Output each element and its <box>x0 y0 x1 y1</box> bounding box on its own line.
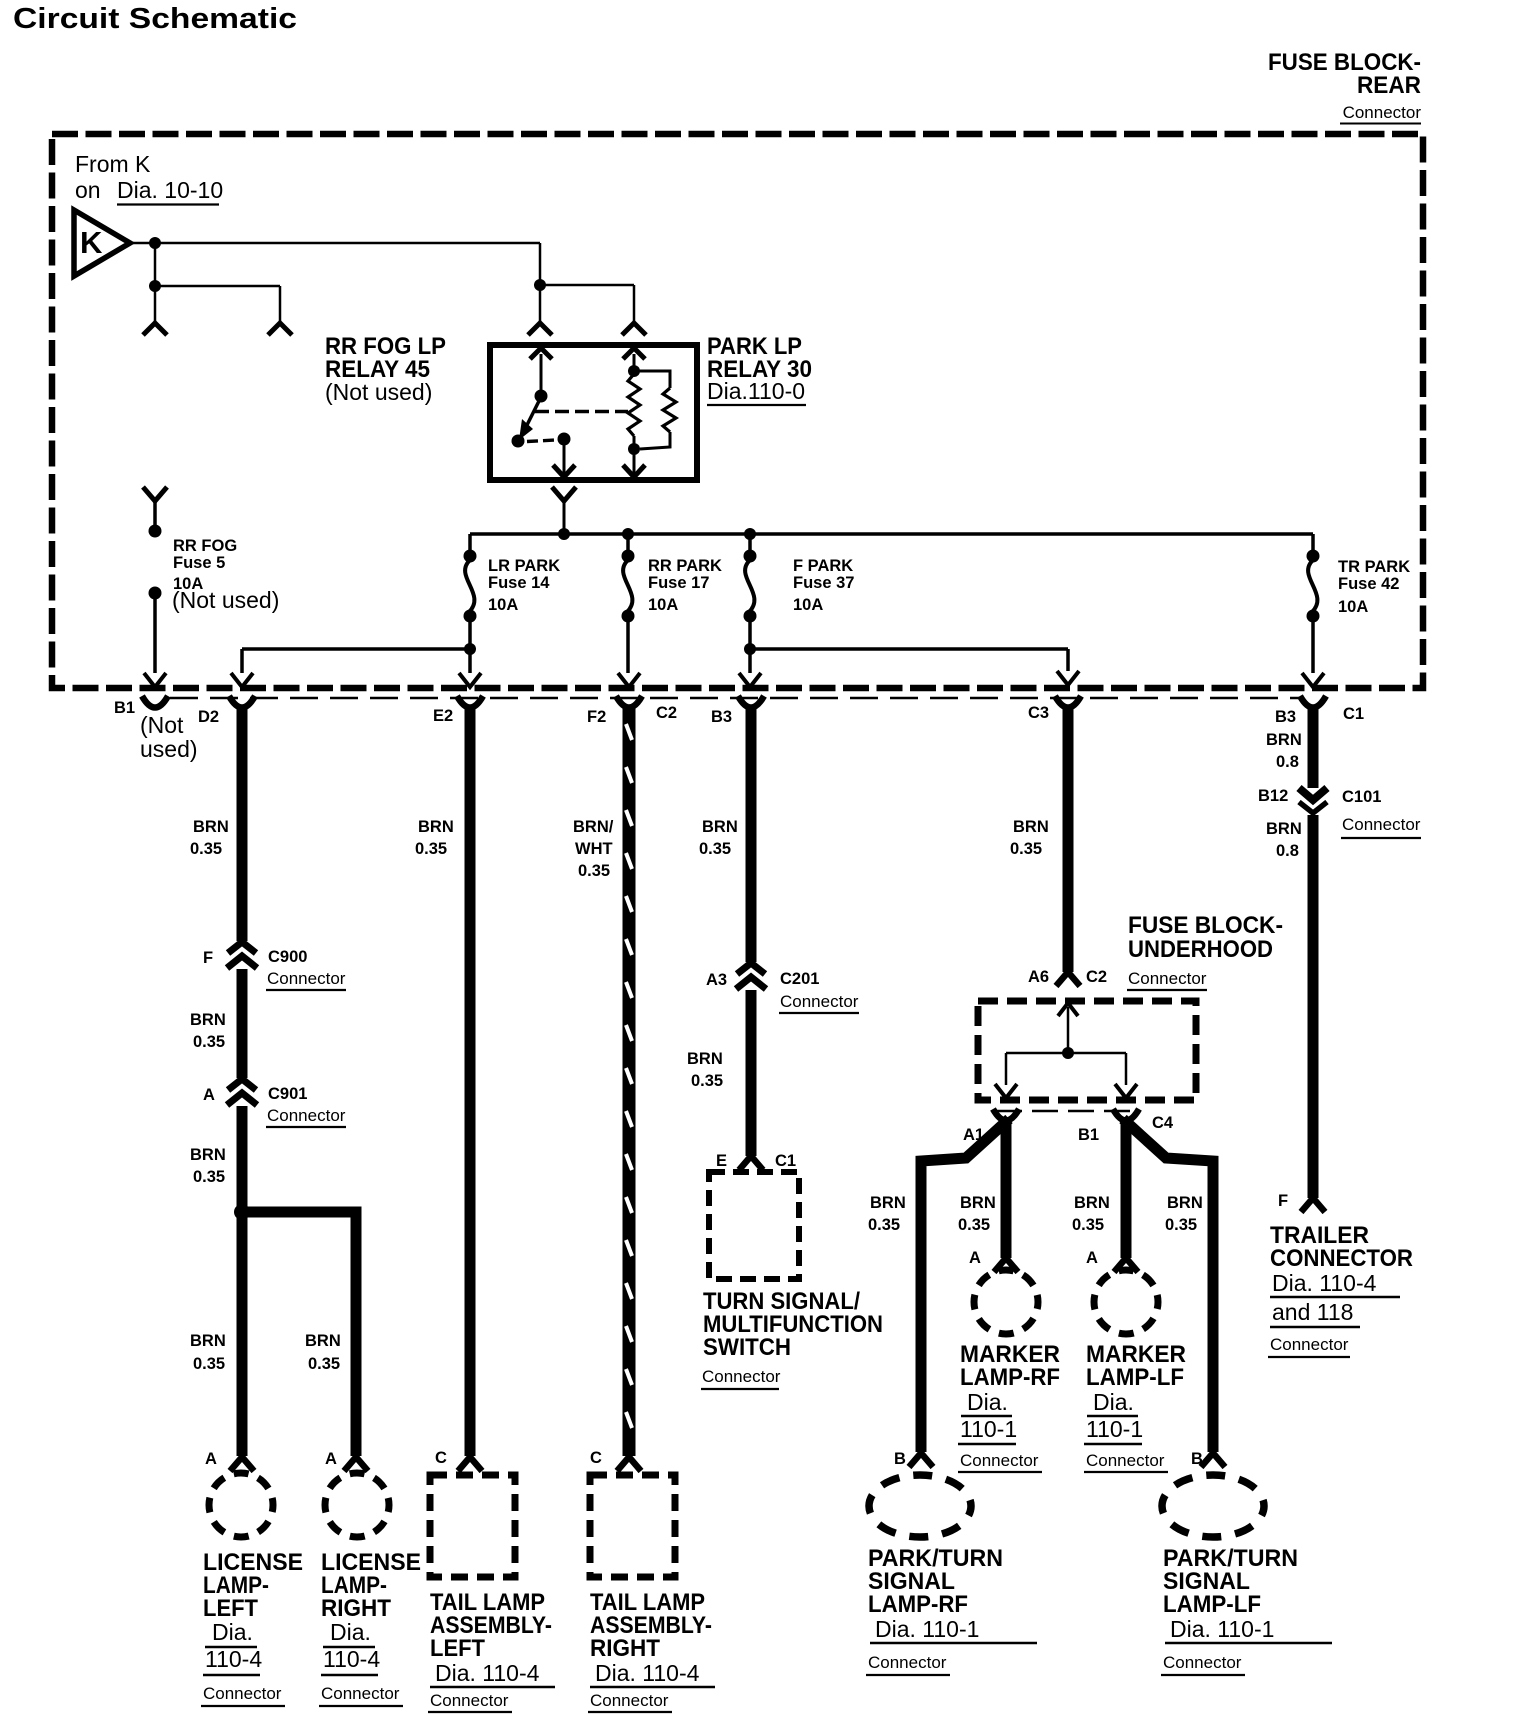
svg-text:0.35: 0.35 <box>868 1216 900 1234</box>
relay coil wire to junction <box>633 436 636 449</box>
svg-text:BRN: BRN <box>418 818 454 836</box>
svg-text:0.35: 0.35 <box>1072 1216 1104 1234</box>
turn signal multifunction switch box <box>709 1172 799 1279</box>
svg-text:BRN: BRN <box>870 1194 906 1212</box>
svg-text:0.35: 0.35 <box>308 1355 340 1373</box>
connector C101 <box>1299 788 1327 813</box>
svg-text:Dia. 110-4: Dia. 110-4 <box>1272 1270 1377 1296</box>
svg-text:A6: A6 <box>1028 968 1049 986</box>
svg-text:Dia.: Dia. <box>1093 1389 1134 1415</box>
wire down to relay pins <box>539 243 542 285</box>
relay switch pivot junction <box>535 390 548 403</box>
connector C900 <box>227 942 257 968</box>
wire B3 brn label <box>699 818 738 858</box>
rr fog fuse 5 label <box>172 537 279 613</box>
connector C201 labels <box>706 970 859 1013</box>
underhood internal feed arrow <box>1058 1003 1078 1053</box>
svg-text:A: A <box>1086 1249 1098 1267</box>
svg-text:A3: A3 <box>706 971 727 989</box>
wire B1 to marker LF <box>1121 1119 1132 1258</box>
svg-text:RIGHT: RIGHT <box>321 1595 391 1622</box>
svg-text:C901: C901 <box>268 1085 307 1103</box>
fuse 37 F PARK <box>744 550 757 623</box>
svg-text:E2: E2 <box>433 707 453 725</box>
svg-text:F: F <box>203 949 213 967</box>
trailer connector terminal <box>1301 1198 1325 1212</box>
svg-text:0.35: 0.35 <box>691 1072 723 1090</box>
svg-text:(Not used): (Not used) <box>325 379 432 405</box>
svg-text:0.35: 0.35 <box>958 1216 990 1234</box>
svg-text:0.35: 0.35 <box>193 1355 225 1373</box>
wire brn label <box>190 1146 226 1186</box>
marker RF terminal <box>994 1258 1018 1272</box>
license lamp right label <box>319 1549 421 1706</box>
svg-text:0.35: 0.35 <box>415 840 447 858</box>
svg-text:SWITCH: SWITCH <box>703 1334 791 1361</box>
pin B3 cup <box>738 696 764 708</box>
connector C901 labels <box>203 1085 346 1127</box>
svg-text:BRN: BRN <box>1074 1194 1110 1212</box>
svg-text:Connector: Connector <box>321 1684 400 1703</box>
svg-text:Dia. 110-1: Dia. 110-1 <box>1170 1616 1274 1642</box>
wire E2 brn label <box>415 818 454 858</box>
wire fuse5 to B1 <box>144 593 166 687</box>
park lp relay 30 label <box>707 333 812 405</box>
svg-text:110-1: 110-1 <box>1086 1416 1143 1442</box>
wire brn label <box>190 1011 226 1051</box>
svg-text:C: C <box>590 1449 602 1467</box>
relay coil bottom junction <box>628 443 640 455</box>
svg-text:Connector: Connector <box>1343 103 1422 122</box>
wire fuse 14 to D2 and E2 <box>231 616 481 687</box>
wire C1 trailer upper <box>1308 707 1319 788</box>
svg-text:Connector: Connector <box>267 969 346 988</box>
wire F2 tail lamp right (BRN/WHT striped) <box>626 707 632 1456</box>
svg-text:A: A <box>203 1086 215 1104</box>
wire B3 turn signal lower <box>746 990 757 1156</box>
relay output junction <box>558 433 571 446</box>
svg-text:RIGHT: RIGHT <box>590 1635 660 1662</box>
svg-text:BRN: BRN <box>190 1332 226 1350</box>
wire down from junction <box>154 243 157 286</box>
svg-text:Connector: Connector <box>702 1367 781 1386</box>
wire A1 to marker RF <box>1001 1119 1012 1258</box>
svg-text:C1: C1 <box>775 1152 796 1170</box>
svg-text:E: E <box>716 1152 727 1170</box>
svg-text:F PARK: F PARK <box>793 557 853 575</box>
underhood internal split wire <box>1006 1052 1126 1055</box>
svg-text:C101: C101 <box>1342 788 1381 806</box>
svg-text:Circuit Schematic: Circuit Schematic <box>13 3 297 35</box>
svg-text:110-1: 110-1 <box>960 1416 1017 1442</box>
svg-text:C3: C3 <box>1028 704 1049 722</box>
park/turn signal lamp LF bulb <box>1162 1475 1264 1537</box>
bus junction at relay output <box>558 528 570 540</box>
svg-text:D2: D2 <box>198 708 219 726</box>
bus drop to fuse 37 <box>748 534 752 556</box>
wire from K to relay branch <box>130 242 540 245</box>
pin B1 cup (not used) <box>142 696 168 708</box>
fuse supply bus <box>470 532 1313 536</box>
bus junction fuse 37 <box>744 528 756 540</box>
fuse 14 LR PARK <box>464 550 477 623</box>
svg-text:Dia. 110-4: Dia. 110-4 <box>595 1660 700 1686</box>
turn signal switch label <box>701 1288 883 1389</box>
svg-text:10A: 10A <box>1338 598 1368 616</box>
svg-text:From K: From K <box>75 151 151 177</box>
wire D2 brn label <box>190 818 229 858</box>
svg-text:LAMP-RF: LAMP-RF <box>868 1591 968 1618</box>
node K triangle <box>74 210 130 276</box>
connector C901 <box>227 1079 257 1105</box>
wire brn 0.8 label lower <box>1266 820 1302 860</box>
svg-text:0.35: 0.35 <box>699 840 731 858</box>
svg-text:0.35: 0.35 <box>1010 840 1042 858</box>
fuse block rear name label <box>1268 49 1421 124</box>
B1 not used label <box>140 712 198 762</box>
svg-text:BRN: BRN <box>1013 818 1049 836</box>
svg-text:Connector: Connector <box>780 992 859 1011</box>
svg-text:C1: C1 <box>1343 705 1364 723</box>
svg-text:110-4: 110-4 <box>323 1646 380 1672</box>
svg-text:CONNECTOR: CONNECTOR <box>1270 1245 1413 1272</box>
svg-text:Connector: Connector <box>590 1691 669 1710</box>
park/turn signal lamp RF label <box>866 1545 1037 1675</box>
svg-text:C900: C900 <box>268 948 307 966</box>
svg-text:BRN: BRN <box>190 1146 226 1164</box>
svg-text:A: A <box>205 1450 217 1468</box>
svg-text:and 118: and 118 <box>1272 1299 1353 1325</box>
svg-text:TR PARK: TR PARK <box>1338 558 1410 576</box>
wire C3 to underhood fuse block <box>1063 707 1074 972</box>
tail lamp right terminal <box>617 1457 641 1471</box>
fuse 17 RR PARK <box>622 550 635 623</box>
fuse 42 TR PARK <box>1307 550 1320 623</box>
svg-text:on: on <box>75 177 101 203</box>
svg-text:(Not: (Not <box>140 712 184 738</box>
svg-text:BRN: BRN <box>702 818 738 836</box>
svg-text:10A: 10A <box>648 596 678 614</box>
underhood internal right out arrow <box>1115 1053 1137 1098</box>
relay output terminal funnel <box>552 487 576 534</box>
svg-text:BRN: BRN <box>1266 731 1302 749</box>
svg-text:Dia.: Dia. <box>967 1389 1008 1415</box>
svg-text:Connector: Connector <box>1086 1451 1165 1470</box>
svg-text:UNDERHOOD: UNDERHOOD <box>1128 936 1273 963</box>
wire stub terminal left <box>143 286 167 335</box>
svg-text:B: B <box>894 1450 906 1468</box>
park/turn signal lamp RF bulb <box>869 1475 971 1537</box>
tail lamp left terminal <box>458 1457 482 1471</box>
junction above relay <box>534 279 546 291</box>
pin C3 cup <box>1055 696 1081 708</box>
wire C4 to park/turn LF <box>1123 1119 1213 1452</box>
fuse 17 label <box>648 557 722 614</box>
svg-text:Connector: Connector <box>1270 1335 1349 1354</box>
brn labels marker/park wires <box>868 1194 1203 1234</box>
wire brn label <box>687 1050 723 1090</box>
bus drop to fuse 17 <box>626 534 630 556</box>
svg-text:WHT: WHT <box>575 840 613 858</box>
license left terminal <box>230 1457 254 1471</box>
svg-text:Dia.110-0: Dia.110-0 <box>707 378 805 404</box>
license lamp right bulb <box>325 1473 389 1537</box>
wire F2 brn/wht label <box>573 818 614 880</box>
relay internal pin chevron right <box>623 348 645 359</box>
tail lamp assembly right box <box>590 1475 675 1577</box>
wire across relay pins <box>540 284 634 287</box>
svg-text:A: A <box>325 1450 337 1468</box>
underhood internal junction <box>1062 1047 1074 1059</box>
svg-text:Fuse 5: Fuse 5 <box>173 554 225 572</box>
svg-text:BRN: BRN <box>687 1050 723 1068</box>
pin D2 cup <box>229 696 255 708</box>
svg-text:Dia.: Dia. <box>212 1619 253 1645</box>
rr fog fuse 5 (not used, open) <box>149 525 162 600</box>
fuse 37 label <box>793 557 854 614</box>
svg-text:LAMP-LF: LAMP-LF <box>1163 1591 1261 1618</box>
svg-text:Dia. 10-10: Dia. 10-10 <box>117 177 223 203</box>
svg-text:Connector: Connector <box>267 1106 346 1125</box>
svg-text:0.35: 0.35 <box>190 840 222 858</box>
svg-text:B1: B1 <box>1078 1126 1099 1144</box>
wire C3 brn label <box>1010 818 1049 858</box>
wire fuse 17 to F2 <box>618 616 640 687</box>
svg-text:0.8: 0.8 <box>1276 753 1299 771</box>
wire branch to license right <box>242 1212 356 1456</box>
fuse block underhood box <box>978 1001 1196 1100</box>
pin C1 cup <box>1300 696 1326 708</box>
svg-text:110-4: 110-4 <box>205 1646 262 1672</box>
svg-text:F: F <box>1278 1192 1288 1210</box>
svg-text:Fuse 37: Fuse 37 <box>793 574 854 592</box>
park/turn signal lamp LF label <box>1161 1545 1332 1675</box>
marker lamp RF bulb <box>974 1270 1038 1334</box>
svg-text:0.35: 0.35 <box>193 1168 225 1186</box>
svg-text:LR PARK: LR PARK <box>488 557 560 575</box>
svg-text:LAMP-LF: LAMP-LF <box>1086 1364 1184 1391</box>
park/turn RF terminal <box>909 1453 933 1467</box>
svg-text:B3: B3 <box>711 708 732 726</box>
junction license branch <box>234 1204 250 1220</box>
svg-text:BRN/: BRN/ <box>573 818 614 836</box>
wire B3 turn signal upper <box>746 707 757 962</box>
wire fuse 42 to C1 <box>1302 616 1324 687</box>
svg-text:FUSE BLOCK-: FUSE BLOCK- <box>1128 912 1283 939</box>
underhood input terminal <box>1056 972 1080 986</box>
relay output wire arrow <box>553 439 575 477</box>
svg-text:Connector: Connector <box>1163 1653 1242 1672</box>
bus drop to fuse 14 <box>468 534 472 556</box>
turn signal switch terminal <box>739 1156 763 1170</box>
rr fog lp relay 45 label <box>325 333 446 405</box>
from K label <box>75 151 223 205</box>
relay coil output arrow <box>623 449 645 477</box>
wire D2 lower <box>237 1106 248 1456</box>
wire C1 trailer lower <box>1308 815 1319 1198</box>
tail lamp assembly left label <box>428 1589 555 1712</box>
svg-text:Connector: Connector <box>203 1684 282 1703</box>
wire stub terminal right <box>268 286 292 335</box>
wire D2 license lamps (upper) <box>237 707 248 941</box>
svg-text:B1: B1 <box>114 699 135 717</box>
svg-text:B12: B12 <box>1258 787 1288 805</box>
svg-text:Connector: Connector <box>960 1451 1039 1470</box>
svg-text:10A: 10A <box>793 596 823 614</box>
marker lamp LF label <box>1084 1341 1186 1472</box>
svg-text:C2: C2 <box>1086 968 1107 986</box>
svg-text:10A: 10A <box>488 596 518 614</box>
svg-text:BRN: BRN <box>1266 820 1302 838</box>
bus junction fuse 17 <box>622 528 634 540</box>
pin F2 cup <box>616 696 642 708</box>
svg-text:A: A <box>969 1249 981 1267</box>
relay suppression resistor <box>634 371 676 449</box>
trailer connector label <box>1268 1222 1413 1357</box>
wire brn 0.8 label <box>1266 731 1302 771</box>
relay coil <box>628 374 640 436</box>
svg-text:Fuse 14: Fuse 14 <box>488 574 550 592</box>
svg-text:K: K <box>80 225 103 260</box>
underhood internal left out arrow <box>995 1053 1017 1098</box>
relay blade contact junction <box>512 435 525 448</box>
svg-text:(Not used): (Not used) <box>172 587 279 613</box>
pin C4 cup <box>1113 1109 1139 1121</box>
svg-text:0.8: 0.8 <box>1276 842 1299 860</box>
relay coil feed wire <box>633 354 636 368</box>
wire branch right <box>155 285 280 288</box>
svg-text:0.35: 0.35 <box>1165 1216 1197 1234</box>
underhood interface dashed line <box>996 1110 1136 1113</box>
svg-text:BRN: BRN <box>1167 1194 1203 1212</box>
park/turn LF terminal <box>1201 1453 1225 1467</box>
rr fog fuse 5 feed terminal <box>143 487 167 531</box>
relay switch blade <box>519 401 539 440</box>
connector C201 <box>736 963 766 989</box>
relay pin wire left terminal <box>528 285 552 335</box>
relay switch common wire <box>540 354 543 392</box>
svg-text:C201: C201 <box>780 970 819 988</box>
connector interface dashed line <box>170 697 1302 700</box>
junction <box>149 280 161 292</box>
tail lamp assembly right label <box>588 1589 715 1712</box>
svg-text:Connector: Connector <box>1128 969 1207 988</box>
wire A1 to park/turn RF <box>921 1119 1009 1452</box>
marker lamp RF label <box>958 1341 1060 1472</box>
svg-text:RR FOG: RR FOG <box>173 537 237 555</box>
fuse 14 label <box>488 557 560 614</box>
license lamp left label <box>201 1549 303 1706</box>
relay pin wire right terminal <box>622 285 646 335</box>
svg-text:BRN: BRN <box>190 1011 226 1029</box>
svg-text:C: C <box>435 1449 447 1467</box>
svg-text:0.35: 0.35 <box>193 1033 225 1051</box>
relay internal pin chevron left <box>530 348 552 359</box>
svg-text:B3: B3 <box>1275 708 1296 726</box>
svg-text:C4: C4 <box>1152 1114 1174 1132</box>
svg-text:F2: F2 <box>587 708 606 726</box>
relay contact dashed segment <box>527 440 556 442</box>
fuse 42 label <box>1338 558 1410 616</box>
svg-text:0.35: 0.35 <box>578 862 610 880</box>
wire E2 tail lamp left <box>465 707 476 1456</box>
svg-text:LEFT: LEFT <box>203 1595 258 1622</box>
svg-text:Connector: Connector <box>1342 815 1421 834</box>
fuse block rear connector box <box>52 134 1423 688</box>
svg-text:Connector: Connector <box>868 1653 947 1672</box>
svg-text:C2: C2 <box>656 704 677 722</box>
svg-text:RR PARK: RR PARK <box>648 557 722 575</box>
svg-text:Dia. 110-4: Dia. 110-4 <box>435 1660 540 1686</box>
svg-text:BRN: BRN <box>193 818 229 836</box>
junction on K wire <box>149 237 161 249</box>
connector C900 labels <box>203 948 346 990</box>
svg-text:Dia.: Dia. <box>330 1619 371 1645</box>
marker lamp LF bulb <box>1094 1270 1158 1334</box>
svg-text:Dia. 110-1: Dia. 110-1 <box>875 1616 979 1642</box>
svg-text:Fuse 17: Fuse 17 <box>648 574 709 592</box>
svg-text:REAR: REAR <box>1357 72 1421 99</box>
relay coil top junction <box>628 365 640 377</box>
svg-text:LEFT: LEFT <box>430 1635 485 1662</box>
wire fuse 37 to B3 and C3 <box>739 616 1079 687</box>
relay actuation dashed link <box>535 410 628 413</box>
svg-text:BRN: BRN <box>305 1332 341 1350</box>
wire brn labels lower <box>190 1332 341 1373</box>
pin E2 cup <box>457 696 483 708</box>
relay box <box>490 345 697 480</box>
pin A1 cup <box>993 1109 1019 1121</box>
svg-text:Connector: Connector <box>430 1691 509 1710</box>
license lamp left bulb <box>209 1473 273 1537</box>
marker LF terminal <box>1114 1258 1138 1272</box>
tail lamp assembly left box <box>430 1475 515 1577</box>
wire D2 mid <box>237 969 248 1078</box>
svg-text:Fuse 42: Fuse 42 <box>1338 575 1399 593</box>
bus drop to fuse 42 <box>1311 534 1315 556</box>
connector C101 labels <box>1341 788 1421 838</box>
license right terminal <box>344 1457 368 1471</box>
svg-text:BRN: BRN <box>960 1194 996 1212</box>
svg-text:LAMP-RF: LAMP-RF <box>960 1364 1060 1391</box>
fuse block underhood name label <box>1127 912 1283 990</box>
svg-text:used): used) <box>140 736 198 762</box>
